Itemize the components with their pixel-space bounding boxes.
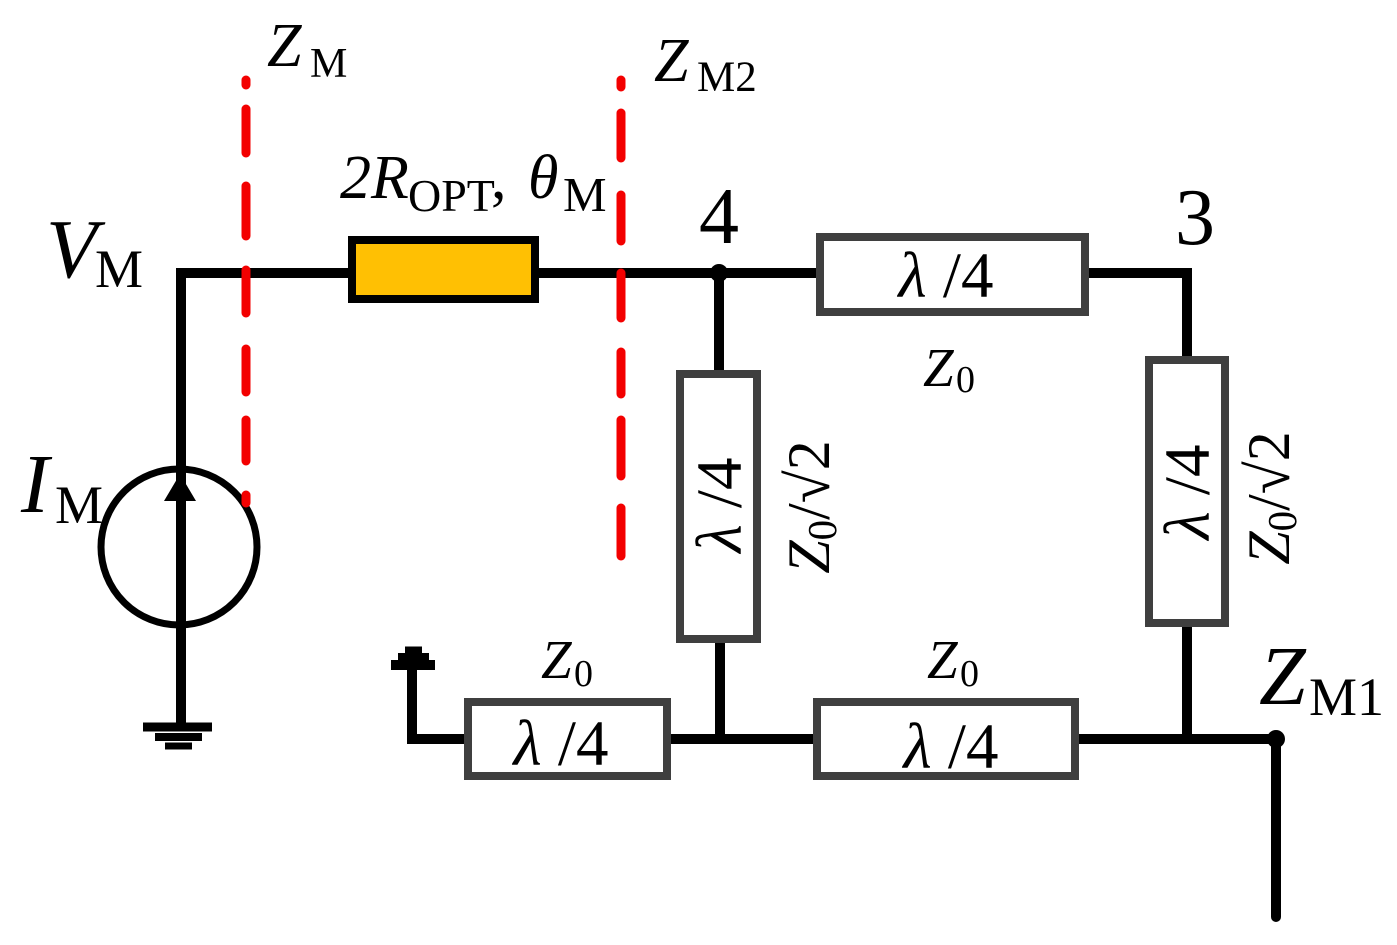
svg-text:λ /4: λ /4	[684, 458, 756, 555]
svg-text:M: M	[563, 167, 607, 222]
wire V_M horizontal top-left	[176, 268, 352, 278]
svg-text:Z0/√2: Z0/√2	[776, 440, 845, 573]
wire bottom bus right segment to Z_M1 corner	[1079, 739, 1276, 917]
reference plane Z_M dashed line	[242, 80, 251, 503]
svg-text:θ: θ	[528, 144, 558, 212]
svg-text:,: ,	[491, 144, 507, 212]
current source I_M circle	[101, 469, 257, 625]
label Z_0 TL1	[923, 337, 975, 401]
svg-text:0: 0	[960, 653, 979, 695]
wire from series line to node 4 and TL1	[536, 268, 1089, 278]
svg-text:M: M	[55, 475, 103, 535]
node junction dot Z_M1 corner	[1267, 730, 1285, 748]
ground symbol below source	[143, 727, 212, 746]
ground tack symbol (inverted) at left of bottom bus	[391, 650, 435, 665]
svg-text:λ /4: λ /4	[512, 708, 609, 780]
reference plane Z_M2 dashed line	[617, 80, 626, 556]
svg-text:2R: 2R	[340, 144, 409, 212]
wire ground tack stem and lead into left bottom TL	[412, 668, 470, 739]
wire V_M corner vertical down to source and ground	[176, 268, 186, 723]
svg-text:M1: M1	[1309, 667, 1384, 727]
svg-text:Z: Z	[1259, 630, 1307, 723]
label 2R_OPT theta_M	[340, 144, 607, 222]
svg-text:Z: Z	[927, 629, 959, 690]
svg-text:Z0/√2: Z0/√2	[1236, 431, 1305, 564]
label Z_0 bottom left	[541, 629, 593, 695]
svg-text:Z: Z	[654, 27, 689, 95]
wire TL1 right to node 3 corner	[1089, 273, 1187, 360]
transmission line TL1 lambda/4 Z0 (top)	[820, 237, 1085, 312]
transmission line shunt stub at node 4	[680, 374, 757, 639]
svg-text:OPT: OPT	[408, 170, 495, 221]
svg-text:λ /4: λ /4	[897, 240, 994, 312]
transmission line bottom right lambda/4	[817, 702, 1075, 776]
svg-text:0: 0	[574, 653, 593, 695]
svg-text:Z: Z	[267, 12, 302, 80]
svg-text:M: M	[310, 41, 347, 87]
svg-text:λ /4: λ /4	[1152, 445, 1224, 542]
svg-text:M: M	[95, 239, 143, 299]
node junction dot 4	[710, 264, 728, 282]
svg-text:I: I	[20, 438, 53, 531]
wire right stub bottom to bottom bus	[1182, 625, 1192, 744]
transmission line 2R_OPT theta_M (orange)	[352, 240, 535, 299]
svg-text:3: 3	[1175, 174, 1215, 262]
svg-text:λ /4: λ /4	[902, 711, 999, 783]
current source arrow head	[164, 474, 196, 501]
wire left stub bottom lead	[715, 641, 725, 744]
wire node 4 down to shunt stub	[714, 273, 724, 375]
transmission line bottom left lambda/4	[468, 702, 667, 776]
svg-text:M2: M2	[697, 54, 757, 101]
svg-text:Z: Z	[541, 629, 573, 690]
label Z_0 bottom right	[927, 629, 979, 695]
wire bottom bus between TLs	[671, 734, 813, 744]
svg-text:Z: Z	[923, 337, 955, 398]
svg-text:0: 0	[956, 359, 975, 401]
transmission line shunt stub at node 3	[1149, 360, 1225, 623]
svg-text:4: 4	[699, 173, 739, 261]
